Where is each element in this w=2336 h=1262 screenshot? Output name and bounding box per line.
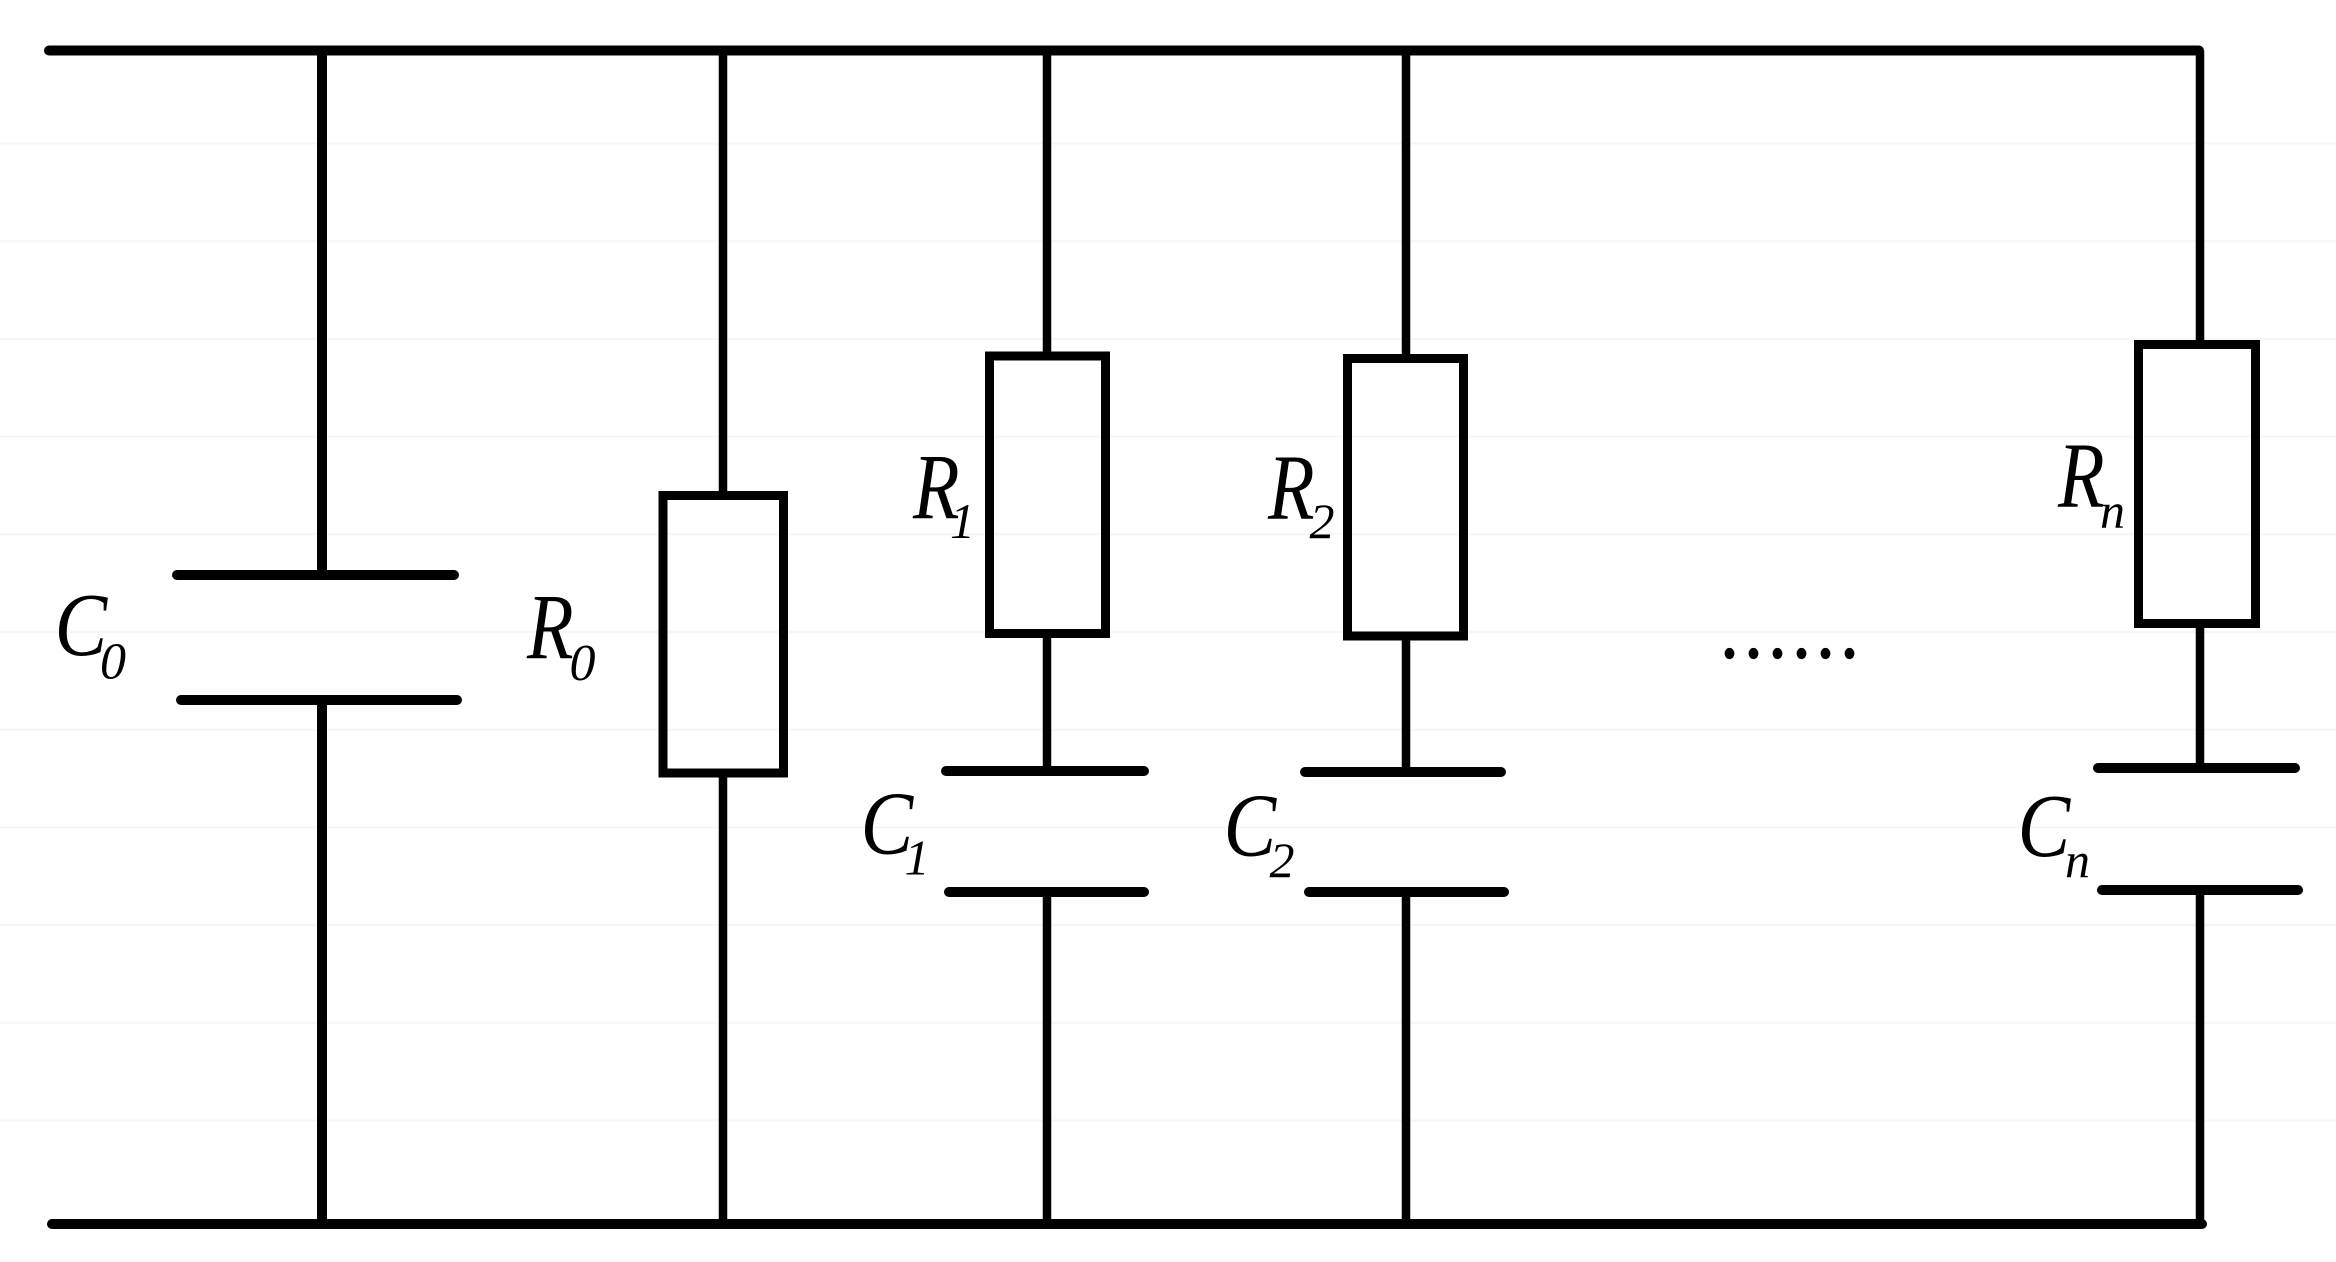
label C1 xyxy=(861,775,930,886)
svg-text:2: 2 xyxy=(1270,832,1295,888)
wire R2-C2 xyxy=(1402,636,1411,772)
wire R1 branch upper xyxy=(1043,51,1052,358)
capacitor C1 xyxy=(946,766,1144,776)
svg-text:0: 0 xyxy=(570,635,596,692)
svg-text:n: n xyxy=(2065,832,2090,888)
resistor R0 xyxy=(663,496,784,774)
label C0 xyxy=(55,576,126,690)
wire Rn-Cn xyxy=(2196,624,2205,769)
svg-text:2: 2 xyxy=(1310,493,1335,549)
wire C1 branch lower xyxy=(1043,892,1052,1224)
wire top bus xyxy=(49,46,2199,56)
capacitor C2 xyxy=(1305,767,1501,777)
label C2 xyxy=(1224,777,1295,888)
ellipsis dots xyxy=(1725,648,1855,659)
svg-text:R: R xyxy=(2057,425,2104,528)
wire R1-C1 xyxy=(1043,633,1052,771)
wire R2 branch upper xyxy=(1402,51,1411,361)
label Cn xyxy=(2018,777,2090,888)
label Rn xyxy=(2057,425,2125,539)
wire Rn branch upper xyxy=(2196,51,2205,347)
svg-text:C: C xyxy=(2018,777,2072,876)
wire Cn branch lower xyxy=(2196,890,2205,1224)
svg-text:1: 1 xyxy=(905,830,930,886)
svg-text:R: R xyxy=(1267,437,1314,540)
label R0 xyxy=(526,576,595,692)
capacitor C0 xyxy=(177,570,454,580)
wire bottom bus xyxy=(52,1219,2202,1229)
wire C2 branch lower xyxy=(1402,892,1411,1224)
wire R0 branch lower xyxy=(719,773,728,1224)
resistor R1 xyxy=(990,356,1106,634)
svg-text:0: 0 xyxy=(100,634,126,691)
label R1 xyxy=(912,436,975,549)
resistor R2 xyxy=(1348,359,1464,637)
resistor Rn xyxy=(2139,345,2256,624)
svg-text:1: 1 xyxy=(950,493,975,549)
wire R0 branch upper xyxy=(719,51,728,497)
capacitor Cn xyxy=(2098,763,2295,773)
svg-text:R: R xyxy=(526,576,573,679)
wire C0 branch lower xyxy=(317,700,327,1224)
wire C0 branch upper xyxy=(317,51,327,576)
svg-text:n: n xyxy=(2100,483,2125,539)
label R2 xyxy=(1267,437,1334,549)
